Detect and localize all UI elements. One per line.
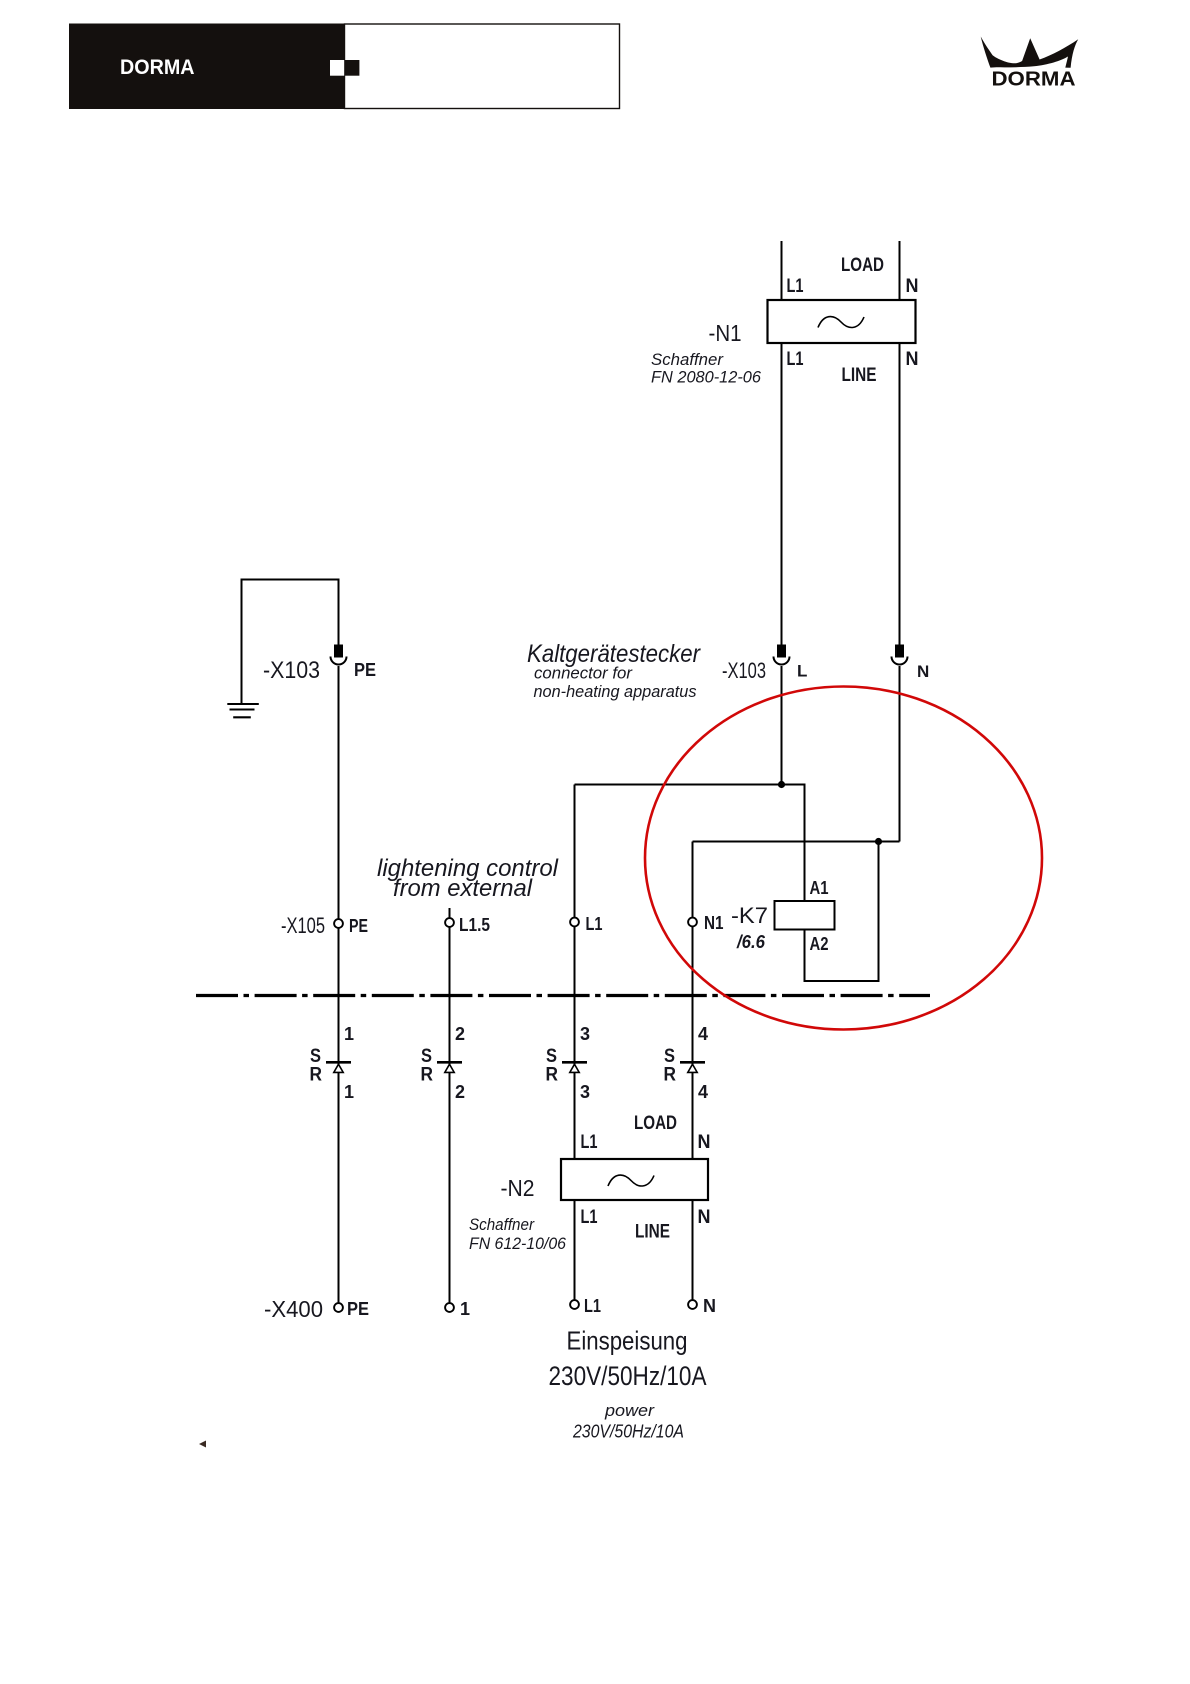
svg-text:LOAD: LOAD (841, 255, 884, 276)
svg-text:-N1: -N1 (709, 320, 742, 346)
svg-text:L1: L1 (584, 1296, 601, 1316)
svg-text:N: N (906, 349, 919, 370)
svg-text:1: 1 (460, 1299, 470, 1319)
svg-text:N1: N1 (704, 913, 724, 933)
wire: X103 N connector down (899, 666, 901, 842)
svg-text:/6.6: /6.6 (736, 932, 766, 952)
svg-text:FN 2080-12-06: FN 2080-12-06 (651, 368, 762, 387)
wire: PE top horizontal (242, 580, 339, 704)
terminal -X105 L1.5 (445, 918, 454, 927)
terminal -X400 1 (445, 1303, 454, 1312)
wire: column 2 stub (449, 908, 451, 1303)
svg-text:power: power (604, 1401, 655, 1420)
svg-text:Einspeisung: Einspeisung (567, 1326, 688, 1356)
svg-text:A1: A1 (810, 878, 829, 898)
svg-text:LINE: LINE (635, 1222, 670, 1243)
terminal -X400 PE (334, 1303, 343, 1312)
wire: X103 L connector to junction (781, 666, 783, 785)
svg-text:4: 4 (698, 1082, 708, 1102)
svg-text:N: N (703, 1296, 716, 1316)
relay coil K7 box (775, 901, 835, 930)
wire: L1 column lower (574, 1200, 576, 1300)
svg-text:PE: PE (349, 916, 368, 936)
wire: PE column (338, 666, 340, 1303)
header white title block (345, 24, 620, 109)
header small black square (344, 60, 359, 76)
wire: L1 column down from corner (574, 785, 576, 1160)
svg-text:from external: from external (393, 875, 533, 902)
header black title block (69, 24, 344, 110)
svg-text:DORMA: DORMA (120, 56, 195, 79)
svg-text:-N2: -N2 (501, 1175, 535, 1201)
svg-text:230V/50Hz/10A: 230V/50Hz/10A (549, 1361, 707, 1391)
wire: N1 column down (692, 842, 694, 1160)
filter N2 sine symbol (608, 1175, 654, 1186)
switch S/R column 2 (437, 1062, 462, 1072)
switch S/R column 4 (680, 1062, 705, 1072)
svg-text:-X105: -X105 (281, 913, 325, 938)
svg-text:-X103: -X103 (263, 657, 320, 684)
switch S/R column 3 (562, 1062, 587, 1072)
svg-text:LOAD: LOAD (634, 1113, 677, 1134)
wire: N column lower (692, 1200, 694, 1300)
svg-text:230V/50Hz/10A: 230V/50Hz/10A (572, 1422, 684, 1442)
svg-text:3: 3 (580, 1082, 590, 1102)
wire: N1 filter L1 top (781, 241, 783, 300)
svg-text:1: 1 (344, 1024, 354, 1044)
terminal -X105 N1 (688, 918, 697, 927)
svg-text:non-heating apparatus: non-heating apparatus (534, 682, 697, 701)
terminal -X105 L1 (570, 918, 579, 927)
svg-text:Schaffner: Schaffner (651, 350, 724, 369)
svg-text:L1: L1 (787, 276, 804, 297)
svg-text:L1: L1 (586, 914, 603, 934)
terminal -X105 PE (334, 919, 343, 928)
svg-text:Schaffner: Schaffner (469, 1215, 535, 1234)
filter N1 box (768, 300, 916, 343)
boundary dash-dot line (196, 994, 930, 997)
svg-text:L1: L1 (787, 349, 804, 370)
wire: K7 A2 return loop (805, 842, 879, 982)
connector -X103 L pin (774, 645, 790, 665)
svg-text:3: 3 (580, 1024, 590, 1044)
svg-text:N: N (906, 276, 919, 297)
svg-text:-X103: -X103 (722, 658, 766, 683)
red highlight ellipse (645, 687, 1042, 1030)
terminal -X400 N (688, 1300, 697, 1309)
svg-text:R: R (310, 1065, 323, 1086)
ground symbol (227, 704, 258, 717)
tiny mark bottom left (199, 1441, 206, 1448)
svg-text:R: R (421, 1065, 434, 1086)
svg-text:L1.5: L1.5 (459, 915, 490, 935)
svg-text:-X400: -X400 (264, 1296, 323, 1322)
svg-text:DORMA: DORMA (992, 68, 1076, 91)
svg-text:R: R (664, 1065, 677, 1086)
svg-text:2: 2 (455, 1082, 465, 1102)
svg-text:R: R (546, 1065, 559, 1086)
svg-text:LINE: LINE (842, 365, 877, 386)
svg-text:N: N (698, 1207, 711, 1228)
svg-text:2: 2 (455, 1024, 465, 1044)
svg-text:PE: PE (354, 660, 376, 680)
DORMA crown logo (981, 37, 1078, 68)
terminal -X400 L1 (570, 1300, 579, 1309)
connector -X103 N pin (892, 645, 908, 665)
wire: N1 L1 bottom to X103 connector (781, 343, 783, 645)
header small white square (330, 60, 344, 76)
filter N1 sine symbol (818, 317, 864, 328)
svg-text:L1: L1 (581, 1132, 598, 1153)
connector -X103 PE pin (331, 645, 347, 665)
wire: horizontal N1 branch (693, 841, 900, 843)
svg-text:A2: A2 (810, 934, 829, 954)
junction dot L/K7 (778, 781, 785, 788)
svg-text:N: N (698, 1132, 711, 1153)
svg-text:4: 4 (698, 1024, 708, 1044)
junction dot N/K7 (875, 838, 882, 845)
filter N2 box (561, 1159, 708, 1200)
wire: horizontal L to K7 (575, 785, 805, 902)
svg-text:PE: PE (347, 1299, 369, 1319)
svg-text:-K7: -K7 (731, 903, 768, 928)
svg-text:N: N (917, 662, 929, 681)
svg-text:1: 1 (344, 1082, 354, 1102)
wire: N1 filter N top (899, 241, 901, 300)
svg-text:connector for: connector for (534, 664, 633, 683)
switch S/R column 1 (326, 1062, 351, 1072)
svg-text:L: L (797, 662, 807, 681)
svg-text:FN 612-10/06: FN 612-10/06 (469, 1234, 567, 1253)
svg-text:L1: L1 (581, 1207, 598, 1228)
wire: N1 N bottom to X103 connector (899, 343, 901, 645)
